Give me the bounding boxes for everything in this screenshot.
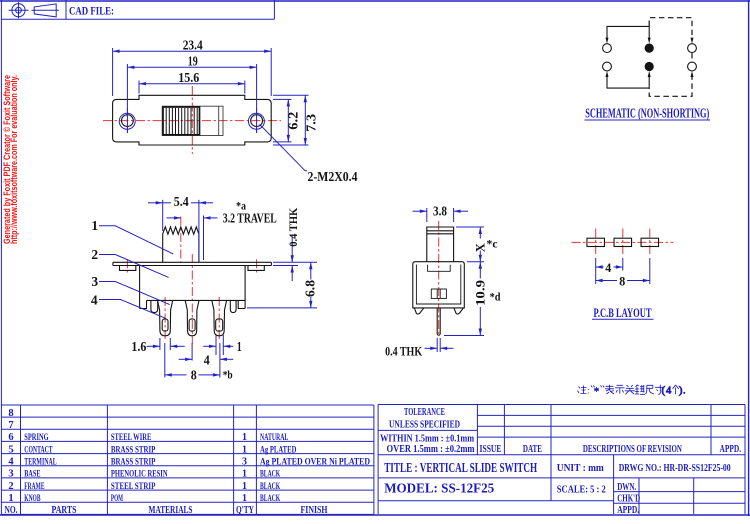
front view: pin centerline left: [164, 297, 166, 341]
svg-text:0.4 THK: 0.4 THK: [385, 343, 423, 358]
dim 19 extension lines: [126, 64, 128, 133]
front view: knob centerline: [180, 217, 182, 262]
top view: part outline: [113, 95, 272, 145]
dim 6.8: [247, 307, 317, 309]
svg-text:POM: POM: [111, 493, 123, 504]
schematic dashed wire: [649, 18, 692, 41]
front view: frame top plate: [113, 261, 272, 263]
svg-text:UNLESS SPECIFIED: UNLESS SPECIFIED: [389, 419, 460, 430]
svg-text:STEEL WIRE: STEEL WIRE: [111, 432, 152, 443]
svg-text:4: 4: [91, 293, 98, 308]
svg-text:*d: *d: [490, 289, 501, 303]
dim 4 extension lines: [191, 343, 193, 361]
dim 1 extension lines: [215, 335, 217, 355]
front view: pin centerline right: [218, 297, 220, 341]
front view: body sides: [139, 266, 141, 309]
top view: knob (knurled): [163, 107, 200, 135]
top view: knurl line 6: [181, 108, 183, 134]
front view: knob: [163, 227, 199, 262]
svg-text:0.4 THK: 0.4 THK: [288, 208, 300, 247]
svg-text:OVER 1.5mm : ±0.2mm: OVER 1.5mm : ±0.2mm: [387, 444, 475, 455]
top view: hole centerline right: [256, 108, 258, 133]
projection symbol cone: [34, 4, 56, 17]
svg-text:7: 7: [8, 420, 13, 431]
svg-text:KNOB: KNOB: [24, 493, 40, 504]
svg-text:BRASS STRIP: BRASS STRIP: [111, 444, 156, 455]
front view: left ear hole centerline: [126, 259, 128, 272]
svg-text:MODEL: SS-12F25: MODEL: SS-12F25: [384, 482, 494, 497]
top view: mounting hole left: [122, 115, 134, 127]
svg-text:BLACK: BLACK: [260, 481, 280, 492]
pcb dim 4 extension lines: [595, 258, 597, 284]
pcb: pad 1: [587, 238, 605, 246]
top view: hole centerline left: [126, 108, 128, 133]
svg-text:TOLERANCE: TOLERANCE: [404, 407, 445, 418]
front view: pin slot 3 (right): [216, 319, 223, 331]
svg-text:CONTACT: CONTACT: [24, 444, 53, 455]
svg-text:DWN.: DWN.: [617, 482, 636, 493]
svg-text:1: 1: [91, 218, 98, 233]
dim 23.4 extension lines: [112, 48, 114, 96]
top view: knurl line 3: [171, 108, 173, 134]
svg-text:10.9: 10.9: [474, 280, 488, 306]
svg-text:TERMINAL: TERMINAL: [24, 457, 57, 468]
front view: part centerline: [191, 254, 193, 344]
side view: centerline: [438, 221, 440, 334]
dim 5.4 extension lines: [162, 200, 164, 231]
side view: left foot: [414, 308, 423, 314]
svg-text:2: 2: [91, 247, 98, 262]
pcb: pad 3: [641, 238, 659, 246]
svg-text:2: 2: [8, 481, 13, 492]
svg-text:MATERIALS: MATERIALS: [149, 505, 193, 516]
svg-text:7.3: 7.3: [304, 114, 319, 132]
svg-text:23.4: 23.4: [183, 38, 203, 53]
dim 3.2 travel arrows: [167, 217, 182, 219]
side view: body inner wall: [416, 265, 460, 305]
svg-text:3: 3: [8, 469, 13, 480]
svg-text:BLACK: BLACK: [260, 469, 280, 480]
dim 1.6 arrows: [147, 345, 160, 347]
top view: knurl line 4: [175, 108, 177, 134]
side view: knob: [427, 227, 454, 262]
svg-text:WITHIN 1.5mm : ±0.1mm: WITHIN 1.5mm : ±0.1mm: [380, 433, 474, 444]
svg-text:3.2 TRAVEL: 3.2 TRAVEL: [223, 210, 277, 225]
svg-text:http://www.foxitsoftware.com: http://www.foxitsoftware.com For evaluat…: [9, 75, 19, 244]
svg-text:SCHEMATIC (NON-SHORTING): SCHEMATIC (NON-SHORTING): [585, 106, 709, 121]
dim 0.4 THK (front): [291, 236, 293, 262]
svg-text:DRWG NO.: HR-DR-SS12F25-00: DRWG NO.: HR-DR-SS12F25-00: [619, 463, 731, 474]
svg-text:UNIT : mm: UNIT : mm: [557, 463, 604, 474]
svg-text:P.C.B LAYOUT: P.C.B LAYOUT: [594, 306, 652, 320]
pcb: pad centerline 1: [595, 229, 597, 257]
svg-text:TITLE : VERTICAL SLIDE SWITCH: TITLE : VERTICAL SLIDE SWITCH: [384, 461, 537, 476]
side view: body outline: [413, 262, 465, 308]
dim 6.2 line: [287, 99, 289, 141]
svg-text:6.8: 6.8: [303, 280, 318, 297]
dim X*c extension line: [456, 226, 484, 228]
dim 10.9 extension lines: [467, 261, 484, 263]
parts table grid: [1, 405, 378, 515]
leader line 2: [99, 255, 169, 278]
dim 10.9 line: [479, 262, 481, 279]
dim 1.6 extension lines: [159, 338, 161, 350]
extension lines plate right: [273, 261, 317, 263]
svg-text:4: 4: [666, 385, 672, 396]
pcb dim 8 line: [596, 280, 617, 282]
schematic solid wire bottom: [607, 74, 649, 88]
pcb dim 8 extension line: [649, 258, 651, 284]
dim 1 arrows: [203, 345, 216, 347]
top view: thread circle right: [248, 113, 264, 129]
svg-text:APPD.: APPD.: [720, 444, 742, 455]
svg-text:1: 1: [8, 493, 13, 504]
svg-text:SCALE: 5 : 2: SCALE: 5 : 2: [557, 484, 606, 495]
top view: knurl line 8: [187, 108, 189, 134]
title block grid: [378, 405, 745, 515]
schematic terminal circles row2: [603, 62, 612, 71]
svg-text:4: 4: [204, 353, 210, 368]
dim 0.4 THK (side) extension lines: [436, 338, 438, 352]
svg-text:PARTS: PARTS: [52, 505, 77, 516]
side view: knob base seen inside: [428, 265, 451, 272]
leader line 1: [99, 226, 173, 254]
svg-text:1: 1: [242, 469, 247, 480]
front view: pin slot 2 (center): [189, 319, 195, 331]
svg-text:DESCRIPTIONS OF REVISION: DESCRIPTIONS OF REVISION: [583, 444, 683, 455]
svg-text:NO.: NO.: [5, 505, 18, 516]
side view: terminal window: [431, 289, 446, 298]
svg-text:(: (: [661, 385, 665, 397]
svg-text:STEEL STRIP: STEEL STRIP: [111, 481, 156, 492]
top view: knurl line 5: [178, 108, 180, 134]
pcb: pad centerline 3: [649, 229, 651, 257]
svg-text:4: 4: [8, 457, 14, 468]
front view: terminal pin 1 (left): [158, 300, 173, 335]
svg-text:2-M2X0.4: 2-M2X0.4: [308, 169, 358, 184]
front view: pin slot 1 (left): [162, 319, 168, 331]
pcb: horizontal centerline: [572, 241, 674, 243]
svg-text:15.6: 15.6: [178, 71, 199, 86]
schematic common contact top (filled): [645, 44, 654, 53]
schematic terminal circles row1: [603, 44, 612, 53]
svg-text:FRAME: FRAME: [24, 481, 44, 492]
svg-text:6.2: 6.2: [286, 112, 301, 130]
dim 5.4 line and arrows: [148, 202, 163, 204]
svg-text:1: 1: [237, 339, 242, 354]
svg-text:NATURAL: NATURAL: [260, 432, 289, 443]
top view: mounting hole right: [251, 115, 263, 127]
dim 8 extension line: [164, 343, 166, 378]
dim 23.4 line: [113, 50, 272, 52]
svg-text:FINISH: FINISH: [301, 505, 328, 516]
svg-text:1: 1: [242, 444, 247, 455]
pcb dim 4 line: [596, 266, 604, 268]
projection symbol circle: [12, 4, 25, 17]
front view: right ear tab: [248, 266, 264, 271]
svg-text:8: 8: [619, 274, 625, 288]
note (chinese): 注:"*"表示关键尺寸（4个）.: [578, 385, 686, 397]
top view: red centerline vertical: [191, 86, 193, 154]
top view: knurl line 9: [190, 108, 192, 134]
svg-text:8: 8: [191, 367, 197, 382]
pcb: pad 2: [614, 238, 632, 246]
svg-text:CHK'D: CHK'D: [617, 494, 640, 505]
svg-text:BRASS STRIP: BRASS STRIP: [111, 457, 156, 468]
top view: red centerline horizontal: [103, 120, 281, 122]
svg-text:CAD FILE:: CAD FILE:: [69, 3, 114, 17]
svg-text:Ag PLATED OVER Ni PLATED: Ag PLATED OVER Ni PLATED: [260, 457, 370, 468]
svg-text:.: .: [683, 385, 686, 396]
svg-text:6: 6: [8, 432, 13, 443]
dim 8 line: [165, 374, 187, 376]
front view: terminal pin 3 (right): [212, 300, 227, 335]
dim 4 arrows: [179, 358, 192, 360]
dim 15.6 extension lines: [138, 81, 140, 94]
svg-text:19: 19: [188, 54, 198, 69]
svg-text:1: 1: [242, 481, 247, 492]
svg-text:5: 5: [8, 444, 13, 455]
front view: base left hook: [151, 300, 158, 312]
leader 2-M2X0.4: [260, 124, 307, 170]
svg-text:BASE: BASE: [24, 469, 40, 480]
front view: base right hook: [230, 300, 236, 312]
svg-text:*c: *c: [487, 237, 499, 251]
svg-text:3: 3: [91, 274, 98, 289]
leader line 3: [99, 282, 170, 305]
svg-text:1.6: 1.6: [131, 339, 146, 354]
dim 19 line: [127, 66, 256, 68]
svg-text:Q'TY: Q'TY: [236, 505, 255, 516]
header bar frame: [1, 18, 274, 20]
top view: thread circle left: [119, 113, 135, 129]
page border: [0, 0, 750, 2]
front view: base bottom left step: [140, 300, 147, 308]
side view: right foot: [454, 308, 464, 314]
dim 7.3 extension lines: [273, 94, 309, 96]
front view: right ear hole centerline: [256, 259, 258, 272]
top view: knurl line 7: [184, 108, 186, 134]
top view: knurl line 11: [196, 108, 198, 134]
svg-text:8: 8: [8, 408, 13, 419]
top view: knurl line 1: [165, 108, 167, 134]
top view: knurl line 10: [193, 108, 195, 134]
svg-text:APPD.: APPD.: [617, 505, 639, 516]
dim 6.2 extension lines: [273, 98, 292, 100]
dim 3.8 arrows: [413, 210, 427, 212]
front view: base bottom right step: [238, 300, 245, 308]
front view: terminal pin 2 (center): [185, 300, 199, 335]
front view: base bottom edge: [147, 299, 246, 301]
svg-text:*b: *b: [223, 367, 233, 381]
svg-text:1: 1: [242, 493, 247, 504]
dim X line: [479, 227, 481, 239]
svg-text:PHENOLIC RESIN: PHENOLIC RESIN: [111, 469, 168, 480]
schematic solid wire top: [607, 26, 649, 40]
top view: slot end line: [218, 106, 220, 135]
svg-text:ISSUE: ISSUE: [480, 444, 502, 455]
dim 15.6 line: [139, 83, 245, 85]
svg-text:5.4: 5.4: [174, 194, 189, 209]
svg-text:3.8: 3.8: [433, 204, 447, 219]
dim 0.4 THK arrows: [425, 347, 438, 349]
svg-text:4: 4: [605, 261, 612, 275]
top view: knurl line 2: [168, 108, 170, 134]
schematic common contact bottom (filled): [645, 62, 654, 71]
svg-text:X: X: [474, 243, 488, 252]
pcb: pad centerline 2: [622, 229, 624, 257]
dim 7.3 line: [304, 95, 306, 145]
side view: terminal pin: [436, 308, 438, 334]
svg-text:1: 1: [242, 432, 247, 443]
svg-text:Ag PLATED: Ag PLATED: [260, 444, 296, 455]
svg-text:DATE: DATE: [523, 444, 542, 455]
leader line 4: [99, 300, 166, 319]
top view: slot outline: [162, 106, 223, 135]
dim 3.8 extension lines: [426, 208, 428, 222]
svg-text:3: 3: [242, 457, 247, 468]
front view: left ear tab: [120, 266, 136, 271]
svg-text:BLACK: BLACK: [260, 493, 280, 504]
svg-text:SPRING: SPRING: [24, 432, 49, 443]
